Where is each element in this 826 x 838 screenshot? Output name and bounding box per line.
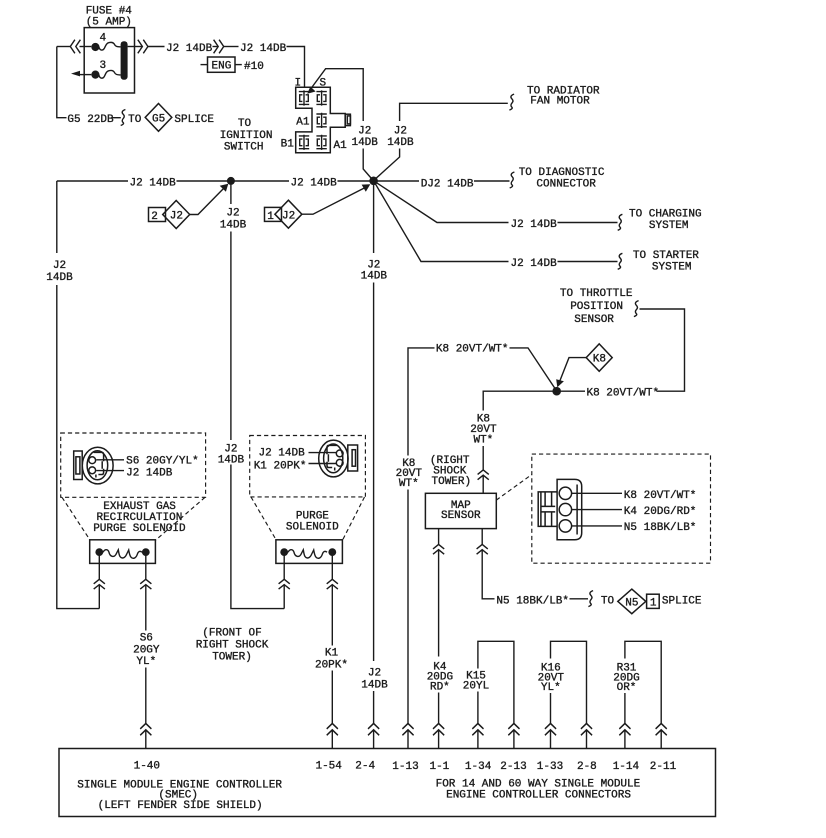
svg-text:3: 3: [100, 60, 107, 72]
ignition connector tip outer: [345, 114, 350, 125]
fuse element pin 4: [99, 42, 121, 50]
wire MAP top segment: [482, 446, 484, 470]
svg-text:TOWER): TOWER): [212, 652, 252, 664]
squiggle diagnostic: [510, 172, 515, 188]
terminal S: [316, 90, 326, 105]
svg-text:K4 20DG/RD*: K4 20DG/RD*: [624, 506, 697, 518]
wire 1-13 into SMEC: [407, 730, 409, 749]
fuse terminal dot pin 3: [91, 71, 99, 79]
pointer line J2 pin: [96, 470, 124, 472]
wire K1 lower to SMEC: [331, 671, 333, 724]
pointer line J2 pin (purge): [309, 452, 337, 454]
wire left vertical lower to EGR elbow: [57, 285, 100, 609]
svg-text:YL*: YL*: [541, 682, 561, 694]
svg-text:J2: J2: [53, 260, 66, 272]
dashed box purge solenoid connector: [250, 436, 366, 497]
connector symbol fuse input: [70, 40, 80, 54]
wire to label J2 14DB second: [224, 46, 239, 48]
wire node C left to MAP elbow: [483, 391, 557, 410]
purge connector pin K1: [336, 459, 343, 466]
svg-text:J2 14DB: J2 14DB: [291, 177, 338, 189]
fuse element pin 3: [99, 70, 121, 78]
svg-text:J2: J2: [282, 210, 295, 222]
wire fuse pin3 stub with arrow: [77, 74, 91, 76]
ignition connector tip inner: [347, 116, 350, 124]
svg-text:N5 18BK/LB*: N5 18BK/LB*: [624, 522, 697, 534]
ignition switch connector body: [296, 87, 346, 153]
wire starter branch: [374, 181, 509, 262]
svg-text:DJ2 14DB: DJ2 14DB: [421, 179, 474, 191]
svg-text:2-13: 2-13: [500, 761, 526, 773]
wire 1-54 into SMEC: [331, 730, 333, 749]
svg-text:14DB: 14DB: [387, 137, 414, 149]
arrowhead pin3: [71, 71, 80, 77]
connector symbol SMEC 1-40: [140, 724, 151, 736]
svg-text:G5: G5: [152, 114, 165, 126]
svg-text:J2 14DB: J2 14DB: [166, 43, 213, 55]
purge solenoid coil: [288, 550, 327, 559]
svg-text:TO THROTTLE: TO THROTTLE: [560, 288, 633, 300]
svg-text:14DB: 14DB: [361, 270, 388, 282]
wire 1-14 into SMEC: [624, 730, 626, 749]
wire into MAP box top: [482, 475, 484, 493]
svg-text:S: S: [320, 78, 327, 90]
svg-text:SYSTEM: SYSTEM: [649, 220, 689, 232]
purge connector outer ring: [319, 440, 348, 477]
wire K15 left lower: [477, 692, 479, 724]
svg-text:TO CHARGING: TO CHARGING: [629, 209, 702, 221]
wire purge right terminal down: [331, 552, 333, 579]
connector symbol K4 under MAP: [433, 544, 444, 554]
wire S6 down to label break: [145, 585, 147, 631]
EGR solenoid terminal right dot: [142, 548, 150, 556]
EGR solenoid box: [90, 540, 156, 564]
wire from terminal I diagonal up to elbow: [310, 69, 364, 121]
wire node B down lower to purge elbow: [231, 465, 284, 609]
EGR connector keyway: [94, 452, 104, 477]
wire 1-34 into SMEC: [477, 730, 479, 749]
svg-text:J2: J2: [170, 211, 183, 223]
wire node C to label: [557, 390, 585, 392]
wire charging to squiggle: [558, 222, 618, 224]
dashed pointer EGR box left: [62, 497, 90, 540]
wire K1 down to label break: [331, 585, 333, 646]
connector symbol SMEC 1-14: [619, 724, 630, 736]
purge connector pin J2: [336, 450, 343, 457]
wire EGR left lower: [98, 585, 100, 609]
svg-text:20PK*: 20PK*: [315, 659, 348, 671]
svg-text:J2: J2: [358, 126, 371, 138]
arrowhead K8 diamond into node C: [556, 379, 564, 387]
node C junction dot: [552, 387, 561, 396]
svg-text:K8 20VT/WT*: K8 20VT/WT*: [624, 490, 697, 502]
svg-text:TO: TO: [601, 595, 615, 607]
svg-text:K1 20PK*: K1 20PK*: [254, 460, 307, 472]
svg-text:CONNECTOR: CONNECTOR: [536, 178, 596, 190]
svg-text:J2 14DB: J2 14DB: [511, 258, 558, 270]
connector symbol MAP top wire: [478, 470, 489, 480]
node A junction dot: [369, 177, 378, 186]
wire 1-1 into SMEC: [438, 730, 440, 749]
connector symbol purge right: [327, 579, 338, 589]
svg-text:1: 1: [650, 598, 657, 610]
svg-text:1-1: 1-1: [429, 761, 449, 773]
wire splice 1J2 to node A: [302, 187, 367, 214]
splice diamond K8: [586, 344, 612, 371]
arrowhead at node B: [220, 184, 229, 192]
connector symbol SMEC 1-1: [433, 724, 444, 736]
splice N5 diamond: [618, 589, 646, 614]
wire G5 label to splice squiggle: [112, 117, 121, 119]
svg-text:4: 4: [100, 33, 107, 45]
svg-text:14DB: 14DB: [46, 272, 73, 284]
connector symbol SMEC 2-11: [656, 724, 667, 736]
svg-text:(FRONT OF: (FRONT OF: [202, 628, 261, 640]
svg-text:1-13: 1-13: [392, 761, 418, 773]
wire bus segment to node B: [177, 180, 290, 182]
wire fuse pin4 input stub: [80, 46, 92, 48]
wire K4 lower to SMEC: [438, 693, 440, 724]
svg-text:WT*: WT*: [399, 478, 419, 490]
wire EGR left terminal down: [98, 552, 100, 579]
wire bus segment to node A: [338, 180, 420, 182]
svg-text:TOWER): TOWER): [432, 476, 472, 488]
wire K4 down to label break: [438, 550, 440, 657]
connector symbol SMEC 1-13: [402, 724, 413, 736]
wire MAP bottom right (N5): [481, 529, 483, 545]
purge connector inner ring: [324, 444, 343, 473]
wire 2-8 into SMEC: [586, 730, 588, 749]
connector symbol EGR right: [140, 579, 151, 589]
wire starter to squiggle: [558, 261, 618, 263]
wire ignition feed down to junction: [363, 149, 373, 181]
svg-text:SYSTEM: SYSTEM: [652, 261, 692, 273]
svg-text:J2 14DB: J2 14DB: [126, 468, 173, 480]
wire K8 diamond to node C: [560, 358, 586, 381]
svg-text:FAN MOTOR: FAN MOTOR: [530, 95, 590, 107]
svg-text:2: 2: [151, 211, 158, 223]
svg-text:J2 14DB: J2 14DB: [511, 219, 558, 231]
splice 2 J2 diamond: [163, 201, 190, 229]
wire node A down: [373, 181, 375, 253]
wire purge left lower: [283, 585, 285, 609]
wire main bus left elbow from left vertical: [57, 180, 128, 182]
svg-text:WT*: WT*: [473, 434, 493, 446]
svg-text:K1: K1: [325, 648, 339, 660]
splice diamond G5: [145, 104, 172, 132]
wire pin N5 to label: [572, 525, 622, 527]
svg-text:2-11: 2-11: [650, 761, 677, 773]
svg-text:2-8: 2-8: [577, 761, 597, 773]
dashed pointer EGR box right: [156, 497, 205, 540]
ENG right stub: [235, 64, 242, 66]
connector symbol N5 under MAP: [477, 544, 488, 554]
svg-text:PURGE SOLENOID: PURGE SOLENOID: [93, 523, 186, 535]
svg-text:SENSOR: SENSOR: [574, 314, 614, 326]
svg-text:14DB: 14DB: [220, 220, 247, 232]
dashed pointer purge box right: [343, 497, 365, 540]
jumper K16 loop top: [551, 641, 587, 723]
EGR connector bracket: [74, 451, 83, 480]
wire label stub left to K8 vertical: [408, 348, 435, 456]
dashed pointer MAP to connector detail: [496, 475, 532, 501]
svg-text:SPLICE: SPLICE: [174, 114, 214, 126]
svg-text:(LEFT FENDER SIDE SHIELD): (LEFT FENDER SIDE SHIELD): [98, 800, 263, 812]
squiggle throttle: [634, 301, 639, 317]
EGR connector inner ring: [87, 451, 108, 480]
wire from left vertical to fuse input: [57, 46, 70, 48]
svg-text:J2 14DB: J2 14DB: [259, 447, 306, 459]
wire K16 left lower: [550, 693, 552, 724]
svg-text:TO: TO: [128, 114, 142, 126]
purge connector keyway: [327, 445, 337, 470]
svg-text:A1: A1: [296, 117, 310, 129]
purge solenoid box: [276, 540, 343, 564]
svg-text:K8 20VT/WT*: K8 20VT/WT*: [436, 344, 509, 356]
wire 2-11 into SMEC: [660, 730, 662, 749]
svg-text:K8: K8: [593, 354, 606, 366]
SMEC controller box: [59, 749, 716, 817]
wire 2-13 into SMEC: [513, 730, 515, 749]
purge solenoid terminal right dot: [328, 548, 336, 556]
MAP sensor box: [425, 493, 496, 528]
svg-text:RD*: RD*: [430, 682, 450, 694]
terminal A1 middle: [316, 113, 326, 128]
wire EGR right terminal down: [145, 552, 147, 579]
wire MAP bottom left (K4): [438, 529, 440, 545]
squiggle N5 splice: [588, 591, 593, 607]
wire fuse output: [128, 46, 142, 48]
svg-text:J2 14DB: J2 14DB: [130, 177, 177, 189]
svg-text:TO: TO: [238, 118, 252, 130]
splice 2 J2 box: [149, 208, 166, 222]
svg-text:20GY: 20GY: [133, 644, 160, 656]
svg-text:1-54: 1-54: [315, 760, 342, 772]
splice 1 J2 diamond: [275, 200, 302, 228]
svg-text:RIGHT SHOCK: RIGHT SHOCK: [196, 640, 269, 652]
svg-text:ENGINE CONTROLLER CONNECTORS: ENGINE CONTROLLER CONNECTORS: [446, 790, 631, 802]
wire purge left terminal down: [283, 552, 285, 579]
wire J2 down to bottom label break: [373, 283, 375, 662]
wire J2 into ignition connector terminal I: [287, 47, 305, 89]
pointer line S6 pin: [96, 459, 124, 461]
ENG box: [208, 57, 236, 72]
arrowhead into terminal I: [307, 87, 315, 94]
svg-text:14DB: 14DB: [351, 137, 378, 149]
dashed pointer purge box left: [251, 497, 276, 540]
MAP connector pin K4: [559, 503, 571, 515]
svg-text:ENG: ENG: [212, 61, 232, 73]
wire radiator branch lower: [374, 149, 400, 181]
dashed box MAP connector detail: [532, 454, 711, 563]
connector symbol SMEC 1-54: [327, 724, 338, 736]
wire label to connector 2: [213, 46, 218, 48]
svg-text:TO STARTER: TO STARTER: [633, 250, 699, 262]
squiggle radiator: [509, 94, 514, 110]
dashed box EGR solenoid connector: [61, 433, 206, 497]
wire N5 down to elbow: [482, 550, 494, 599]
svg-text:2-4: 2-4: [355, 760, 375, 772]
svg-text:#10: #10: [244, 61, 264, 73]
connector symbol SMEC 2-13: [508, 724, 519, 736]
svg-text:TO DIAGNOSTIC: TO DIAGNOSTIC: [519, 167, 605, 179]
svg-text:1: 1: [267, 211, 274, 223]
svg-text:POSITION: POSITION: [570, 301, 623, 313]
wire K8 vertical lower to SMEC: [407, 490, 409, 724]
svg-text:I: I: [295, 78, 302, 90]
squiggle charging: [618, 214, 623, 230]
jumper R31 loop top: [625, 641, 661, 723]
svg-text:A1: A1: [334, 140, 348, 152]
svg-text:YL*: YL*: [136, 656, 156, 668]
MAP connector pin N5: [559, 520, 571, 532]
svg-text:20YL: 20YL: [463, 681, 489, 693]
EGR connector pin S6: [89, 457, 96, 464]
squiggle starter: [618, 253, 623, 269]
wire radiator branch vertical upper: [400, 103, 508, 121]
svg-text:G5 22DB: G5 22DB: [67, 114, 114, 126]
wire DJ2 to diagnostic: [474, 180, 510, 182]
connector symbol J2 output 1: [138, 40, 148, 54]
svg-text:J2: J2: [394, 126, 407, 138]
svg-text:1-34: 1-34: [465, 761, 492, 773]
wire N5 label to squiggle: [570, 598, 589, 600]
connector symbol SMEC 1-33: [545, 724, 556, 736]
wire R31 left lower: [624, 693, 626, 724]
fuse bus bar: [121, 41, 128, 80]
svg-text:RECIRCULATION: RECIRCULATION: [96, 512, 182, 524]
fuse F4 box: [84, 28, 134, 93]
MAP connector body: [557, 479, 582, 539]
terminal A1 bottom: [316, 135, 326, 150]
svg-text:SWITCH: SWITCH: [224, 142, 264, 154]
wire label right to node C diagonal: [510, 348, 557, 390]
wire pin K4 to label: [572, 509, 622, 511]
jumper K15 loop top: [478, 641, 514, 723]
svg-text:SPLICE: SPLICE: [662, 595, 702, 607]
svg-text:SOLENOID: SOLENOID: [286, 521, 339, 533]
wire 1-40 into SMEC: [145, 730, 147, 749]
svg-text:OR*: OR*: [617, 682, 637, 694]
wire throttle to node C: [640, 309, 685, 391]
wire left vertical upper: [56, 181, 58, 253]
EGR connector pin J2: [89, 467, 96, 474]
splice N5 box: [647, 594, 660, 608]
svg-text:1-14: 1-14: [613, 761, 640, 773]
svg-text:N5 18BK/LB*: N5 18BK/LB*: [496, 595, 569, 607]
wire 1-33 into SMEC: [550, 730, 552, 749]
svg-text:1-40: 1-40: [134, 760, 160, 772]
purge connector bracket: [348, 445, 358, 471]
MAP connector pin K8: [559, 487, 571, 499]
connector symbol SMEC 2-4: [368, 724, 379, 736]
pointer line K1 pin (purge): [309, 463, 337, 465]
ENG left stub: [201, 64, 208, 66]
connector symbol J2 output 2: [214, 40, 224, 54]
squiggle G5: [121, 110, 126, 126]
connector symbol EGR left: [94, 579, 105, 589]
connector symbol SMEC 2-8: [581, 724, 592, 736]
wire J2 lower to SMEC: [373, 691, 375, 724]
EGR solenoid coil: [103, 550, 142, 559]
node B junction dot: [227, 177, 235, 185]
wire charging branch: [374, 181, 509, 223]
wire splice 2J2 to node B: [190, 188, 225, 215]
MAP connector comb: [538, 492, 557, 527]
svg-text:N5: N5: [625, 597, 638, 609]
wire S6 lower to SMEC: [145, 668, 147, 724]
wire left vertical down to G5 row: [57, 47, 67, 118]
svg-text:S6: S6: [140, 633, 153, 645]
svg-text:14DB: 14DB: [361, 680, 388, 692]
svg-text:K8 20VT/WT*: K8 20VT/WT*: [587, 387, 660, 399]
EGR solenoid terminal left dot: [95, 548, 103, 556]
svg-text:S6 20GY/YL*: S6 20GY/YL*: [126, 456, 199, 468]
svg-text:1-33: 1-33: [537, 761, 563, 773]
connector symbol purge left: [279, 579, 290, 589]
terminal B1: [299, 135, 309, 150]
wire node B down: [230, 181, 232, 204]
splice 1 J2 box: [265, 207, 282, 221]
svg-text:J2: J2: [368, 668, 381, 680]
fuse terminal dot pin 4: [91, 43, 99, 51]
wire pin K8 to label: [572, 492, 622, 494]
svg-text:J2: J2: [226, 208, 239, 220]
svg-text:(5 AMP): (5 AMP): [86, 17, 132, 29]
EGR connector outer ring: [82, 447, 113, 484]
connector symbol SMEC 1-34: [472, 724, 483, 736]
arrowhead at node A: [362, 184, 371, 192]
svg-text:B1: B1: [281, 138, 295, 150]
svg-text:IGNITION: IGNITION: [220, 130, 273, 142]
wire node B down mid: [230, 232, 232, 441]
wire 2-4 into SMEC: [373, 730, 375, 749]
terminal I: [299, 90, 309, 105]
purge solenoid terminal left dot: [280, 548, 288, 556]
svg-text:J2 14DB: J2 14DB: [240, 43, 287, 55]
wire to label J2 14DB: [148, 46, 165, 48]
svg-text:SENSOR: SENSOR: [441, 510, 481, 522]
